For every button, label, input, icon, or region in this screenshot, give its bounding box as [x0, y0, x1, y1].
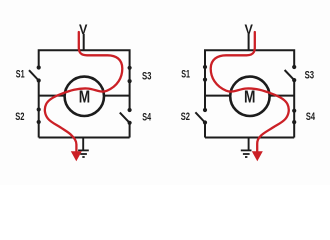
svg-text:S3: S3 [305, 70, 315, 82]
current path right arrowhead [252, 151, 263, 161]
wire V2 supply lead [248, 34, 250, 51]
wire middle rail right segment right circuit [269, 95, 294, 97]
switch S4b label [306, 111, 316, 123]
svg-text:S2: S2 [181, 111, 190, 123]
switch S1 label [16, 68, 25, 80]
switch S2 label [15, 111, 24, 123]
wire left side below S2 [204, 123, 206, 138]
switch S3b label [305, 70, 315, 82]
wire bottom rail left circuit [39, 137, 130, 139]
switch S4 label [142, 112, 151, 124]
switch S2b terminal dots [203, 108, 207, 125]
wire right side through S3 closed down to S4 [129, 68, 131, 110]
wire left side below S1 [38, 81, 40, 138]
motor M1 letter [79, 86, 90, 106]
wire top rail right circuit with upper side segments [205, 50, 294, 67]
current path left circuit (through S3 and S2) [45, 32, 122, 152]
ground GND2 stem [248, 138, 250, 151]
node V1 label [79, 21, 88, 37]
ground GND1 bars [78, 150, 89, 157]
wire middle rail left segment [39, 95, 65, 97]
ground GND1 stem [82, 138, 84, 151]
motor M2 circle [230, 77, 269, 116]
wire right side below S3 [293, 80, 295, 137]
switch S3b open blade [285, 70, 295, 80]
switch S2b open blade [195, 112, 205, 122]
switch S1b label [181, 69, 190, 81]
motor M1 circle [65, 77, 104, 116]
node V2 label [245, 21, 254, 37]
current path left arrowhead [71, 151, 82, 161]
svg-text:S4: S4 [306, 111, 316, 123]
switch S4 terminal dots [128, 108, 132, 125]
switch S2 terminal dots closed [37, 107, 41, 124]
switch S1 open blade [29, 70, 39, 80]
switch S3 terminal dots closed [128, 66, 132, 83]
wire right side below S4 [129, 123, 131, 138]
wire V1 supply lead [83, 34, 85, 50]
switch S3b terminal dots [292, 65, 296, 82]
svg-text:S2: S2 [15, 111, 24, 123]
svg-text:S1: S1 [181, 69, 190, 81]
svg-text:S1: S1 [16, 68, 25, 80]
wire middle rail right segment [104, 95, 130, 97]
current path right circuit (through S1 and S4) [211, 32, 289, 152]
switch S4 open blade [120, 113, 130, 123]
wire top rail left circuit with upper side segments [39, 50, 130, 68]
ground GND2 bars [241, 150, 252, 157]
switch S4b terminal dots closed [292, 109, 296, 125]
wire left side through S1 closed down to S2 [204, 67, 206, 110]
wire middle rail left segment right circuit [205, 95, 230, 97]
switch S1b terminal dots closed [203, 65, 207, 82]
motor M2 letter [244, 86, 255, 106]
wire bottom rail right circuit [205, 137, 294, 139]
switch S1 terminal dots [37, 65, 41, 82]
svg-text:S3: S3 [142, 70, 152, 82]
switch S2b label [181, 111, 190, 123]
switch S3 label [142, 70, 152, 82]
svg-text:S4: S4 [142, 112, 151, 124]
